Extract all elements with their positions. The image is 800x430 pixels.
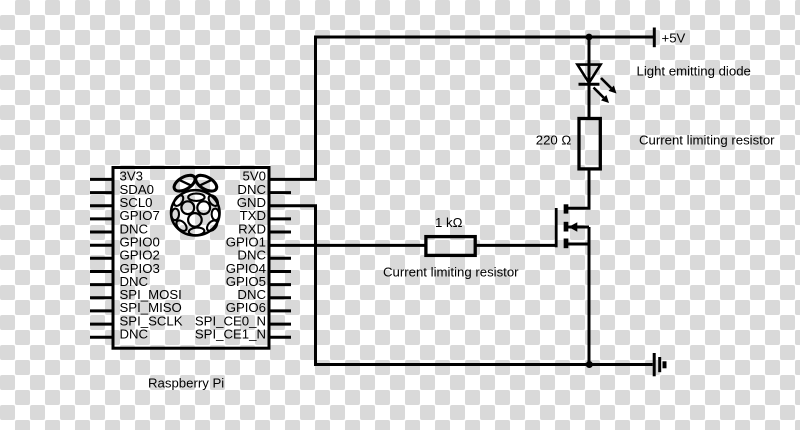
LED D1 diode symbol <box>577 65 600 85</box>
wire LED anode from top rail <box>588 37 591 65</box>
wire +5V top rail <box>314 36 653 39</box>
LED emission arrow 1 <box>601 78 617 94</box>
resistor R1 220 ohm <box>579 119 600 169</box>
svg-text:Current limiting resistor: Current limiting resistor <box>383 265 519 280</box>
logo raspberry outline <box>171 172 220 236</box>
wire LED cathode to resistor R1 top <box>588 65 591 117</box>
svg-text:220 Ω: 220 Ω <box>536 132 572 147</box>
wire transistor body to source vertical <box>567 226 589 229</box>
pin labels right <box>195 169 267 342</box>
junction dot bottom rail source <box>586 361 593 368</box>
wire resistor R1 bottom to transistor drain <box>565 171 590 209</box>
pins right stubs <box>268 193 292 338</box>
ground symbol <box>654 353 664 376</box>
LED emission arrow 2 <box>594 88 610 104</box>
svg-text:SPI_CE1_N: SPI_CE1_N <box>195 327 266 342</box>
svg-text:Current limiting resistor: Current limiting resistor <box>639 132 775 147</box>
transistor Q1 body arrow <box>569 222 578 231</box>
wire 5V0 pin to vertical net <box>268 178 318 181</box>
wire transistor source down to bottom rail <box>588 227 591 365</box>
wire GPIO1 pin to resistor R2 <box>268 244 425 247</box>
svg-text:Light emitting diode: Light emitting diode <box>637 64 751 79</box>
wire transistor source <box>566 243 589 246</box>
svg-text:1 kΩ: 1 kΩ <box>435 215 463 230</box>
pins left stubs <box>90 179 115 337</box>
wire vertical net 5V0 pin to top rail <box>314 37 317 179</box>
svg-text:+5V: +5V <box>662 31 686 46</box>
pin labels left <box>120 169 183 342</box>
wire GND pin to bottom rail vertical <box>268 206 316 365</box>
+5V terminal bar <box>653 28 656 48</box>
wire resistor R2 to transistor gate <box>477 244 557 247</box>
transistor Q1 N-MOSFET <box>556 204 566 248</box>
svg-text:DNC: DNC <box>120 327 149 342</box>
IC U1 Raspberry Pi body <box>113 168 269 349</box>
wire bottom ground rail <box>314 363 653 366</box>
resistor R2 1 kohm <box>426 237 475 256</box>
junction dot top rail LED <box>586 34 593 41</box>
svg-text:Raspberry Pi: Raspberry Pi <box>148 376 224 391</box>
